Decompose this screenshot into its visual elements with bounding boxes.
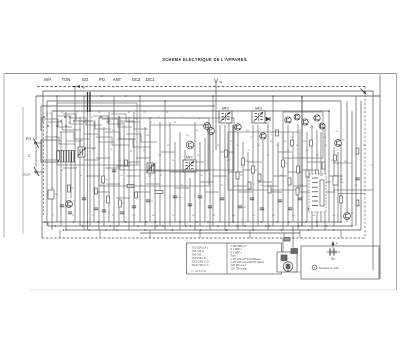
capacitor [208,206,212,208]
svg-text:R16: R16 [285,163,288,165]
wire [136,191,150,193]
transistor [235,124,241,130]
wire [219,125,221,222]
svg-text:GO,A: GO,A [23,173,30,177]
svg-text:47n: 47n [120,175,123,177]
wire [116,165,130,167]
wire [56,96,58,222]
legend divider [226,243,228,274]
svg-text:6K8: 6K8 [220,185,223,187]
svg-text:R11: R11 [167,145,170,147]
svg-text:R4: R4 [174,122,176,124]
svg-text:25u: 25u [240,175,243,177]
capacitor [68,212,72,214]
svg-text:R0: R0 [61,112,63,114]
svg-text:R21: R21 [276,145,279,147]
svg-text:C13: C13 [197,155,200,157]
wire [252,125,254,230]
page frame right border [396,74,398,291]
wire [189,178,191,222]
svg-text:R4: R4 [105,179,107,181]
capacitor [250,198,254,200]
svg-text:C2: C2 [52,215,54,217]
resistor R5 [125,160,131,166]
junction [301,96,303,98]
svg-text:56p: 56p [55,194,58,196]
wire [243,169,257,171]
resistor [107,196,110,203]
svg-text:C11: C11 [158,155,161,157]
wire [84,159,98,161]
bus wire right dashed [364,87,366,239]
wire [116,197,130,199]
power rail D [47,100,341,102]
capacitor [220,198,224,200]
svg-text:1500: 1500 [340,182,344,184]
wire [45,137,75,144]
capacitor C21 [238,206,246,209]
junction [316,225,318,227]
wire rail stub 5 [51,111,53,127]
svg-text:D 1 MDP 1: D 1 MDP 1 [231,249,243,251]
svg-text:(+ RT 1/2K uue)+/TE HT) Qauud: (+ RT 1/2K uue)+/TE HT) Qauud [231,262,265,264]
wire bottom stub 2 [47,222,49,226]
svg-text:8K2: 8K2 [320,175,323,177]
svg-text:C6: C6 [65,206,67,208]
inner left border wire [22,107,24,234]
capacitor C49 [333,176,344,185]
wire [190,161,204,163]
transformer MF2 [219,107,232,124]
wire [317,181,331,183]
wire [329,175,343,177]
wire [102,119,132,127]
capacitor [198,196,202,198]
svg-text:C42: C42 [299,130,302,132]
wire [103,127,105,226]
svg-text:T11/12 SB 4 x.7: T11/12 SB 4 x.7 [192,264,210,267]
wire loop [228,132,300,190]
svg-text:C35: C35 [324,145,327,147]
resistor [322,162,325,169]
wire [57,116,84,124]
wire [247,152,249,222]
svg-text:R27: R27 [316,155,319,157]
wire [120,121,148,129]
svg-text:R37: R37 [357,205,360,207]
wire [144,127,146,226]
wire [302,169,316,171]
svg-text:MF1: MF1 [186,156,193,160]
resistor R2 [68,185,74,192]
svg-text:R23: R23 [283,141,286,143]
wire [98,117,100,230]
svg-text:R19: R19 [257,145,260,147]
transistor [260,133,266,139]
wire [51,127,53,230]
capacitor [355,178,359,180]
svg-text:C4: C4 [73,129,75,131]
svg-text:R18: R18 [232,215,235,217]
wire [237,132,239,230]
transistor [319,123,325,129]
svg-text:PO: PO [99,77,106,82]
wire [93,116,123,124]
junction [116,225,118,227]
resistor [306,170,309,177]
svg-text:C14: C14 [178,197,181,199]
wire [238,191,252,193]
wire rail stub 4 [40,106,42,131]
svg-text:R33: R33 [344,161,347,163]
svg-text:50: 50 [172,160,174,162]
wire stub to dashed rail [340,230,342,238]
battery B1 [326,249,340,256]
wire [277,142,279,222]
svg-text:Tensions en volts: Tensions en volts [319,266,340,270]
junction [145,221,147,223]
junction [101,95,103,97]
svg-text:C8: C8 [130,151,132,153]
capacitor [288,208,292,210]
svg-text:R7: R7 [110,149,112,151]
legend text column 2 [231,246,265,270]
svg-text:R3: R3 [150,122,152,124]
wire [93,122,95,222]
wire [212,96,214,226]
transistor [204,123,211,130]
ground rail junctions [44,221,334,231]
svg-text:C27: C27 [286,150,289,152]
antenna coil box [41,140,57,162]
svg-text:R15: R15 [270,141,273,143]
svg-text:100: 100 [260,185,263,187]
svg-text:R6: R6 [122,203,124,205]
transformer TR1 driver [309,174,326,212]
wire [46,112,48,226]
wire [204,138,206,222]
svg-text:C16: C16 [212,215,215,217]
wire [333,147,335,226]
svg-text:C6: C6 [166,112,168,114]
svg-text:R3: R3 [92,149,94,151]
junction [225,229,227,231]
resistor R16 [282,160,289,167]
svg-text:220: 220 [60,170,63,172]
resistor [356,200,359,206]
svg-text:C18: C18 [250,137,253,139]
svg-text:C3: C3 [51,188,53,190]
resistor [291,140,294,146]
wire loop [120,118,234,170]
component value labels [46,111,373,217]
svg-text:AA: AA [82,85,86,89]
svg-text:9v: 9v [331,257,335,261]
svg-text:C2: C2 [76,112,78,114]
wire [205,191,219,193]
capacitor [278,200,282,202]
svg-text:OC1: OC1 [146,77,155,82]
svg-text:C21: C21 [243,207,246,209]
junction [196,221,198,223]
wire stub to dashed rail [299,230,301,238]
svg-text:R25: R25 [310,127,313,129]
svg-text:C24: C24 [292,215,295,217]
transistor T2 [66,201,77,208]
capacitor [308,208,312,210]
resistor [310,140,313,146]
wire [200,181,214,183]
svg-text:TON: TON [62,77,71,82]
wire [306,132,308,222]
wire [228,111,230,226]
wire [273,175,287,177]
wire [70,152,72,198]
junction [105,229,107,231]
svg-text:C9: C9 [151,201,153,203]
svg-text:C3: C3 [98,112,100,114]
junction [340,221,342,223]
svg-text:82: 82 [160,175,162,177]
transistor T1 [186,141,197,149]
wire [63,114,93,121]
resistor [155,191,163,194]
junction [65,229,67,231]
wire stub to dashed rail [59,230,61,238]
svg-text:L8: L8 [49,113,51,115]
wire [123,122,125,222]
variable capacitor CV [147,163,155,177]
capacitor [120,212,124,214]
wire [328,111,330,222]
svg-text:OC2: OC2 [132,77,141,82]
terminal GO [23,167,44,177]
svg-text:C31: C31 [306,150,309,152]
resistor [288,178,291,185]
wire [154,163,156,230]
capacitor C14 [173,196,181,199]
wire bottom stub [41,222,43,238]
wire loop [57,103,137,165]
capacitor [102,210,106,212]
wire [96,137,129,145]
svg-text:T 7&8 2SB 4 x.7: T 7&8 2SB 4 x.7 [231,246,248,248]
switch contact plus marks [43,116,120,127]
resistor [225,150,228,157]
voltage note symbol [312,265,317,270]
wire [159,122,161,226]
wire [258,181,272,183]
wire [297,124,299,230]
legend box [187,243,282,274]
wire [301,97,303,226]
svg-text:C39: C39 [146,135,149,137]
speaker HP [283,262,293,272]
wire [126,134,157,142]
bus wire right 1 [379,75,381,280]
wire [262,140,264,222]
wire [170,171,184,173]
wire [229,171,243,173]
transistor T5 [314,115,324,121]
wire [224,125,226,230]
svg-text:C1: C1 [53,118,55,120]
svg-text:(-> symbole(s)): (-> symbole(s)) [192,270,207,273]
resistor [56,151,59,160]
wire [292,132,294,222]
wire [282,132,284,230]
diode D2 [266,117,271,125]
svg-text:ANT: ANT [113,77,122,82]
wire [161,151,175,153]
wire [117,139,150,147]
wire [41,117,43,222]
svg-text:C4: C4 [121,122,123,124]
svg-text:R20: R20 [246,130,249,132]
wire [106,183,120,185]
wire loop [150,125,208,171]
wire [213,175,227,177]
switch lever right [361,89,367,95]
wire [105,167,119,169]
power rail E [41,105,215,107]
capacitor [260,208,264,210]
wire [293,185,307,187]
svg-text:R12: R12 [245,161,248,163]
svg-text:R28: R28 [323,137,326,139]
wire stub to dashed rail [149,230,151,238]
wire [311,125,313,230]
transistor [302,119,308,125]
junction [212,95,214,97]
wire loop [99,118,209,186]
junction [351,225,353,227]
junction [87,221,89,223]
wire [179,132,181,230]
wire [84,134,114,142]
bus wire right 6 [346,101,348,222]
transformer MF1 [183,156,196,173]
switch S1 bank [87,92,91,230]
svg-text:M/A: M/A [44,77,52,82]
terminal PO [26,137,42,148]
junction [56,95,58,97]
junction [74,86,76,88]
junction [139,95,141,97]
capacitor C3 [48,188,58,199]
resistor [268,186,271,193]
svg-text:2p: 2p [198,118,200,120]
wire [74,87,76,223]
bus wire right 2 [372,91,374,270]
power rail C [36,95,380,97]
wire loop [283,112,323,158]
svg-text:R24: R24 [296,145,299,147]
page frame top rule [4,73,397,75]
legend text column 1 [192,247,210,273]
wire [164,101,166,230]
svg-text:C20: C20 [252,215,255,217]
wire [139,96,141,222]
power rail F [52,110,330,112]
capacitor C6 [60,205,67,208]
wire [126,161,140,163]
wire [175,187,189,189]
wire [65,112,67,230]
transistor T6 [335,140,346,147]
ground rail 4 [140,232,300,234]
svg-text:C49: C49 [340,179,343,181]
resistor [95,188,98,194]
wire rail stub 3 [46,101,48,117]
junction [125,95,127,97]
svg-text:SCHEMA ELECTRIQUE DE L'APPAREI: SCHEMA ELECTRIQUE DE L'APPAREIL [162,57,248,62]
wire antenna switch [35,146,37,167]
svg-text:6p: 6p [113,112,115,114]
wire [272,96,274,226]
resistor [236,172,239,179]
svg-text:22: 22 [83,122,85,124]
svg-text:R11: R11 [230,141,233,143]
capacitor [188,204,192,206]
svg-text:R13: R13 [186,135,189,137]
svg-text:R2: R2 [71,188,73,190]
wire stub to dashed rail [99,230,101,238]
capacitor [132,206,136,208]
wire [105,132,136,139]
svg-text:C5: C5 [143,112,145,114]
node AA arrow [73,85,86,89]
power rail AA dashed [37,86,365,88]
wire stub to dashed rail [199,230,201,238]
junction [265,225,267,227]
svg-text:C51: C51 [370,165,373,167]
capacitor [82,198,86,200]
resistor [297,166,300,173]
transformer MF3 [252,107,265,124]
wire [126,175,140,177]
svg-text:C29: TEr uue(a): C29: TEr uue(a) [231,267,248,270]
wire [233,185,247,187]
wire [220,151,234,153]
svg-text:C10: C10 [132,215,135,217]
transistor T7 [344,213,355,220]
svg-text:R1: R1 [72,215,74,217]
transistor [294,114,300,120]
wire [86,175,100,177]
svg-text:a: a [46,111,47,113]
junction [83,95,85,97]
junction [156,225,158,227]
capacitor [112,170,116,172]
wire [257,125,259,226]
svg-text:4K7: 4K7 [137,165,140,167]
svg-text:C19: C19 [247,150,250,152]
svg-text:5p: 5p [80,175,82,177]
svg-text:R14: R14 [217,145,220,147]
svg-text:C12: C12 [172,215,175,217]
wire [248,161,262,163]
svg-text:R40: R40 [112,130,115,132]
bus wire right 7 [340,101,342,222]
resistor [316,170,319,177]
wire [267,124,269,230]
svg-text:78p: 78p [58,140,61,142]
wire stub to dashed rail [249,230,251,238]
svg-text:C5: C5 [92,215,94,217]
svg-text:R5: R5 [128,163,130,165]
svg-text:CV: CV [148,174,152,177]
